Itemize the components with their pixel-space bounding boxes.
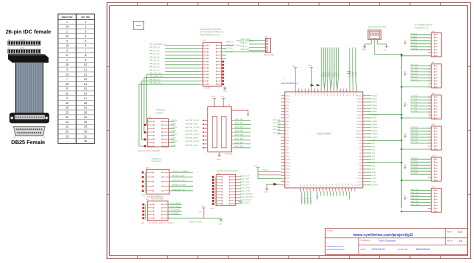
resistor R1: [203, 208, 205, 218]
connector JP11 body: [428, 188, 441, 212]
connector JP7 body: [428, 64, 441, 88]
svg-text:PA20: PA20: [286, 161, 290, 164]
svg-text:DAC0: DAC0: [372, 177, 377, 180]
svg-text:13: 13: [84, 77, 88, 81]
svg-text:DB25 PIN: DB25 PIN: [62, 16, 73, 19]
connector JP3 body: [146, 169, 169, 194]
svg-text:PWM9: PWM9: [357, 123, 362, 126]
svg-text:PA15: PA15: [286, 101, 290, 104]
svg-text:JP8: JP8: [432, 92, 435, 95]
svg-text:PWM13: PWM13: [372, 136, 378, 139]
svg-text:11: 11: [66, 115, 69, 119]
svg-text:BUF_IN2: BUF_IN2: [235, 122, 244, 125]
wires DUE top nets: [320, 48, 357, 89]
svg-text:JTAG_TCK: JTAG_TCK: [240, 174, 250, 177]
ground U1: [218, 152, 220, 155]
svg-text:COOLANT_ON: COOLANT_ON: [172, 179, 186, 182]
svg-text:IN_CH5: IN_CH5: [411, 44, 417, 47]
svg-text:EXT_RESET: EXT_RESET: [171, 202, 183, 205]
svg-text:PC7: PC7: [286, 149, 289, 152]
power +3V3 DUE: [310, 68, 312, 89]
svg-text:AUX_CH6: AUX_CH6: [411, 203, 419, 206]
wires JP7 left: [401, 63, 432, 87]
junction squares JP3 left: [142, 171, 145, 192]
svg-text:16: 16: [65, 44, 69, 48]
filter parts JP7: [404, 71, 406, 74]
junction squares JP2 left: [144, 124, 146, 147]
svg-text:17: 17: [65, 53, 69, 57]
pins U1 left: [202, 120, 207, 149]
svg-text:PWM4: PWM4: [357, 107, 362, 110]
svg-text:PWM1: PWM1: [357, 98, 362, 101]
svg-text:DB25 Female: DB25 Female: [11, 140, 45, 146]
svg-text:YDIR: YDIR: [171, 130, 176, 133]
wires JP11 left: [401, 188, 432, 212]
svg-text:AD8: AD8: [372, 165, 376, 168]
svg-text:JTAG_TDI: JTAG_TDI: [240, 183, 249, 186]
svg-text:AUX_CH4: AUX_CH4: [411, 197, 419, 200]
svg-text:BUF_IN1: BUF_IN1: [235, 118, 244, 121]
svg-text:19: 19: [84, 106, 88, 110]
svg-text:LS_CH1: LS_CH1: [411, 95, 418, 98]
wires JP10 left: [401, 157, 432, 181]
svg-text:BUF_IN2: BUF_IN2: [273, 122, 280, 125]
svg-text:PC8: PC8: [286, 152, 289, 155]
svg-text:PC2: PC2: [286, 133, 289, 136]
svg-text:PC9: PC9: [286, 155, 289, 158]
svg-text:14: 14: [43, 136, 45, 139]
svg-text:OF THE DB25 PARALLEL: OF THE DB25 PARALLEL: [200, 31, 224, 34]
svg-text:IDC26: IDC26: [205, 87, 210, 90]
svg-text:SPINDLE &: SPINDLE &: [151, 157, 162, 160]
wires JP9 left: [401, 126, 432, 150]
svg-text:13: 13: [65, 134, 69, 138]
DB25 rear shell: [9, 113, 49, 123]
terminal X1 body: [368, 30, 381, 40]
svg-text:SW_CH2: SW_CH2: [411, 129, 419, 132]
svg-text:ADIR: ADIR: [171, 144, 176, 147]
svg-text:PWM0: PWM0: [372, 94, 377, 97]
svg-text:PD10: PD10: [286, 126, 290, 129]
svg-text:PD1: PD1: [286, 107, 289, 110]
svg-text:HM_CH3: HM_CH3: [411, 69, 418, 72]
svg-text:24: 24: [84, 130, 88, 134]
svg-text:ZSTEP: ZSTEP: [171, 133, 178, 136]
svg-text:AD11: AD11: [372, 174, 376, 177]
svg-text:REV:: REV:: [447, 231, 452, 234]
svg-text:PA7: PA7: [286, 123, 289, 126]
svg-text:-: -: [67, 139, 68, 143]
svg-text:EXT_HOLD: EXT_HOLD: [171, 205, 182, 208]
IDC connector body 3d: [8, 54, 49, 63]
svg-text:JP10: JP10: [432, 154, 436, 157]
svg-text:20: 20: [84, 110, 88, 114]
svg-text:PP_D4_IN: PP_D4_IN: [150, 59, 160, 62]
svg-text:12: 12: [84, 72, 88, 76]
svg-text:21: 21: [65, 91, 69, 95]
filter parts JP6: [404, 40, 406, 43]
svg-text:+3V3: +3V3: [210, 207, 214, 210]
svg-text:PARALLEL: PARALLEL: [156, 109, 167, 112]
svg-text:25: 25: [84, 134, 88, 138]
svg-text:XSTEP: XSTEP: [171, 119, 178, 122]
svg-text:IN_CH1: IN_CH1: [411, 32, 417, 35]
connector JP2 body: [147, 119, 168, 147]
wires JP3 right: [169, 170, 193, 191]
svg-text:AD6: AD6: [359, 158, 362, 161]
svg-text:IN_CH2: IN_CH2: [411, 35, 417, 38]
IDC pin row odd: [8, 49, 41, 53]
svg-text:14: 14: [65, 25, 69, 29]
svg-text:PWM4: PWM4: [372, 107, 377, 110]
svg-text:AUX_CH1: AUX_CH1: [411, 188, 419, 191]
svg-text:Drawn By:: Drawn By:: [398, 248, 408, 251]
capacitor C1: [347, 71, 351, 73]
svg-text:PP_D1_IN: PP_D1_IN: [150, 49, 160, 52]
svg-text:USB_D-: USB_D-: [240, 41, 248, 44]
svg-text:PWM5: PWM5: [372, 110, 377, 113]
svg-text:AX_CH5: AX_CH5: [411, 169, 418, 172]
svg-text:15: 15: [65, 34, 69, 38]
svg-text:JTAG_DBGRQ: JTAG_DBGRQ: [240, 192, 253, 195]
svg-text:PC19: PC19: [286, 165, 290, 168]
svg-text:AD4: AD4: [359, 152, 362, 155]
svg-text:FC_START: FC_START: [171, 209, 181, 212]
svg-text:A MODIFIED VERSION: A MODIFIED VERSION: [200, 28, 222, 31]
svg-text:AX_CH2: AX_CH2: [411, 160, 418, 163]
ic DUE shield body: [285, 92, 363, 188]
svg-text:MOTOR_XSTEP: MOTOR_XSTEP: [185, 119, 200, 122]
svg-text:MOTOR_YSTEP: MOTOR_YSTEP: [185, 126, 200, 129]
svg-text:17: 17: [84, 96, 88, 100]
svg-text:PC18: PC18: [286, 168, 290, 171]
svg-text:25: 25: [65, 130, 69, 134]
svg-text:DAC1: DAC1: [372, 180, 377, 183]
svg-text:AD1: AD1: [372, 142, 376, 145]
svg-text:20: 20: [65, 82, 69, 86]
svg-text:COOLANT: COOLANT: [151, 160, 161, 163]
svg-text:BUF_IN8: BUF_IN8: [235, 145, 244, 148]
svg-text:SW_CH6: SW_CH6: [411, 141, 419, 144]
svg-text:PWM13: PWM13: [356, 136, 362, 139]
svg-text:24: 24: [65, 120, 69, 124]
svg-text:1: 1: [45, 125, 46, 128]
svg-text:SW_CH4: SW_CH4: [411, 135, 419, 138]
wires DUE left nets: [254, 164, 281, 179]
svg-text:IN_CH4: IN_CH4: [411, 41, 417, 44]
svg-text:DUE Shield: DUE Shield: [317, 133, 331, 136]
svg-text:AX_CH3: AX_CH3: [411, 163, 418, 166]
svg-text:SWD: SWD: [238, 201, 243, 204]
svg-text:PWM12: PWM12: [372, 133, 378, 136]
svg-text:23: 23: [84, 125, 88, 129]
svg-text:Input Power (5-12V): Input Power (5-12V): [368, 25, 386, 28]
svg-text:BUF_IN3: BUF_IN3: [235, 126, 244, 129]
ground JP1: [224, 86, 226, 87]
svg-text:10: 10: [65, 106, 69, 110]
svg-text:PWM11: PWM11: [372, 129, 378, 132]
svg-text:JP3: JP3: [145, 167, 148, 170]
svg-text:18: 18: [84, 101, 88, 105]
svg-text:HM_CH1: HM_CH1: [411, 63, 418, 66]
svg-text:TITLE:: TITLE:: [327, 230, 334, 233]
svg-text:RESET_SAFE: RESET_SAFE: [189, 221, 202, 224]
ic U1 body: [208, 107, 232, 152]
filter parts JP9: [404, 133, 406, 136]
svg-text:IDC PIN: IDC PIN: [81, 16, 90, 19]
svg-text:PP_D3_IN: PP_D3_IN: [150, 56, 160, 59]
wire power bus vertical: [401, 55, 403, 209]
connector JP10 body: [428, 157, 441, 181]
svg-text:PWM2: PWM2: [372, 101, 377, 104]
svg-text:MOTOR_ADIR: MOTOR_ADIR: [185, 144, 198, 147]
svg-text:AUX_CH5: AUX_CH5: [411, 200, 419, 203]
svg-text:PWM12: PWM12: [356, 133, 362, 136]
svg-text:14: 14: [84, 82, 88, 86]
svg-text:X2: X2: [265, 35, 267, 38]
svg-text:PD6: PD6: [286, 117, 289, 120]
svg-text:16: 16: [84, 91, 88, 95]
svg-text:USB_GND: USB_GND: [240, 48, 250, 51]
svg-text:PWM7: PWM7: [357, 117, 362, 120]
svg-text:RESET/PWR: RESET/PWR: [151, 198, 163, 201]
power +3V3 U1: [213, 99, 215, 107]
svg-text:HEADERS 1-6: HEADERS 1-6: [415, 26, 429, 29]
svg-text:www.synthetos.com/project/g2/: www.synthetos.com/project/g2/: [352, 232, 414, 237]
svg-text:22: 22: [65, 101, 69, 105]
svg-text:AD3: AD3: [372, 149, 376, 152]
svg-text:26-pin IDC female: 26-pin IDC female: [6, 30, 51, 36]
svg-text:PA24: PA24: [286, 174, 290, 177]
svg-text:PP_STROBE_IN: PP_STROBE_IN: [150, 43, 166, 46]
svg-text:PA14: PA14: [286, 98, 290, 101]
svg-text:R1: R1: [199, 210, 201, 213]
svg-text:22: 22: [84, 120, 88, 124]
svg-text:Date:: Date:: [360, 248, 366, 251]
svg-text:JP11: JP11: [432, 185, 436, 188]
svg-text:TXD3_Q: TXD3_Q: [301, 197, 304, 205]
svg-text:PWM3: PWM3: [357, 104, 362, 107]
svg-text:AD3: AD3: [359, 149, 362, 152]
connector JP4 body: [147, 201, 168, 221]
svg-text:PS_ON: PS_ON: [226, 47, 233, 50]
svg-text:USB_D+: USB_D+: [240, 45, 249, 48]
svg-text:JP1: JP1: [203, 39, 206, 42]
svg-text:CANRX: CANRX: [356, 184, 363, 187]
svg-text:SPINDLE_ENABLE: SPINDLE_ENABLE: [172, 170, 189, 173]
svg-text:PC4: PC4: [286, 139, 289, 142]
supply X1 right: [385, 45, 388, 47]
wires JP1 left rows10-13 to JP2: [139, 72, 200, 146]
svg-text:12: 12: [65, 125, 69, 129]
svg-text:EXT CTRL: EXT CTRL: [151, 195, 162, 198]
svg-text:XDIR: XDIR: [171, 123, 176, 126]
svg-text:COOLANT_ON: COOLANT_ON: [226, 44, 240, 47]
svg-text:RXD3_Q: RXD3_Q: [304, 197, 307, 205]
svg-text:IN_CH6: IN_CH6: [411, 47, 417, 50]
junction arrows DUE top: [311, 84, 315, 86]
ribbon cable: [16, 63, 44, 114]
svg-text:Micro USB: Micro USB: [264, 53, 275, 56]
connector JP6 body: [428, 33, 441, 57]
svg-text:JP9: JP9: [432, 123, 435, 126]
svg-text:DUE:NORMAL_A: DUE:NORMAL_A: [281, 82, 299, 85]
svg-text:PP_ACK_IN: PP_ACK_IN: [150, 72, 162, 75]
svg-text:SW_CH3: SW_CH3: [411, 132, 419, 135]
svg-text:AD9: AD9: [372, 168, 376, 171]
svg-text:PA19: PA19: [286, 158, 290, 161]
svg-text:MOTOR_ZSTEP: MOTOR_ZSTEP: [185, 133, 200, 136]
svg-text:RXD0: RXD0: [355, 72, 358, 77]
svg-text:AD11: AD11: [358, 174, 362, 177]
wires U1 right: [232, 118, 251, 148]
svg-text:SS0: SS0: [337, 73, 340, 77]
svg-text:PP_D5_IN: PP_D5_IN: [150, 62, 160, 65]
svg-text:PWM1: PWM1: [372, 98, 377, 101]
svg-text:PD9: PD9: [286, 120, 289, 123]
svg-text:AD2: AD2: [372, 145, 376, 148]
svg-text:BUF_IN1: BUF_IN1: [273, 119, 280, 122]
svg-text:PWM7: PWM7: [372, 117, 377, 120]
svg-text:JP4: JP4: [145, 198, 148, 201]
svg-text:USB_VBUS: USB_VBUS: [240, 38, 251, 41]
svg-text:JTAG_TMS: JTAG_TMS: [240, 177, 250, 180]
svg-text:HM_CH4: HM_CH4: [411, 72, 418, 75]
svg-text:JTAG_TRST: JTAG_TRST: [240, 189, 252, 192]
svg-text:JTAG_DBGACK: JTAG_DBGACK: [240, 195, 254, 198]
svg-text:PWM10: PWM10: [356, 126, 362, 129]
pins DUE top: [294, 89, 358, 96]
svg-text:BUF_IN3: BUF_IN3: [273, 125, 280, 128]
svg-text:PP_D0_IN: PP_D0_IN: [150, 46, 160, 49]
svg-text:15: 15: [84, 87, 88, 91]
logo box: [133, 21, 143, 29]
svg-text:PD3: PD3: [286, 113, 289, 116]
svg-text:DAC1: DAC1: [357, 180, 362, 183]
svg-text:MOTOR_YDIR: MOTOR_YDIR: [185, 130, 198, 133]
svg-text:+3V3: +3V3: [308, 64, 312, 67]
svg-text:CANRX: CANRX: [372, 184, 379, 187]
svg-text:BUF_IN4: BUF_IN4: [273, 128, 280, 131]
svg-text:YSTEP: YSTEP: [171, 126, 178, 129]
svg-text:PA22: PA22: [286, 180, 290, 183]
svg-text:grblShield by Synthetos: grblShield by Synthetos: [327, 248, 345, 251]
svg-text:ZDIR: ZDIR: [171, 137, 176, 140]
svg-text:26: 26: [84, 139, 88, 143]
svg-text:HM_CH6: HM_CH6: [411, 78, 418, 81]
svg-text:18: 18: [65, 63, 69, 67]
svg-text:11: 11: [84, 68, 87, 72]
svg-text:MOTOR_XDIR: MOTOR_XDIR: [185, 123, 198, 126]
svg-text:AD1: AD1: [359, 142, 362, 145]
svg-text:AD8: AD8: [359, 165, 362, 168]
svg-text:Company:: Company:: [360, 239, 370, 242]
svg-text:8 CHANNEL INPUT: 8 CHANNEL INPUT: [415, 24, 433, 27]
wire RESET_SAFE: [168, 217, 221, 219]
svg-text:AX_CH1: AX_CH1: [411, 157, 418, 160]
svg-text:PWM10: PWM10: [372, 126, 378, 129]
svg-text:PWM_A: PWM_A: [226, 40, 234, 43]
svg-text:SW_CH5: SW_CH5: [411, 138, 419, 141]
svg-text:with inspiration from the: with inspiration from the: [327, 245, 345, 248]
svg-text:PWM2: PWM2: [357, 101, 362, 104]
svg-text:BUF_IN5: BUF_IN5: [273, 131, 280, 134]
svg-text:AD4: AD4: [372, 152, 376, 155]
connector JP5 body: [216, 174, 235, 205]
svg-text:DAC0: DAC0: [357, 177, 362, 180]
svg-text:MOTOR_ZDIR: MOTOR_ZDIR: [185, 137, 198, 140]
svg-text:LS_CH4: LS_CH4: [411, 104, 418, 107]
svg-text:LS_CH2: LS_CH2: [411, 98, 418, 101]
ground X1 left: [363, 45, 366, 47]
svg-text:JP6: JP6: [432, 30, 435, 33]
svg-text:AUX_CH3: AUX_CH3: [411, 194, 419, 197]
svg-text:23: 23: [65, 110, 69, 114]
svg-text:PC1: PC1: [286, 129, 289, 132]
svg-text:PWM9: PWM9: [372, 123, 377, 126]
svg-text:EXTERNAL SWITCH INPUTS: EXTERNAL SWITCH INPUTS: [148, 222, 174, 225]
svg-text:IN_CH3: IN_CH3: [411, 38, 417, 41]
svg-text:Your Company: Your Company: [379, 240, 397, 243]
svg-text:JTAG_RTCK: JTAG_RTCK: [240, 186, 252, 189]
svg-text:PS_OK: PS_OK: [226, 51, 233, 54]
power +5V DUE: [295, 68, 297, 89]
svg-text:ERASE: ERASE: [262, 169, 269, 172]
svg-text:PA23: PA23: [286, 177, 290, 180]
wires JP4 right: [168, 202, 182, 215]
svg-text:PWM11: PWM11: [356, 129, 362, 132]
svg-text:AD5: AD5: [359, 155, 362, 158]
wires JP1 left rows1-9: [150, 43, 201, 72]
wire DUE reset with arrow: [267, 183, 281, 185]
svg-text:74HC245: 74HC245: [225, 153, 233, 156]
wires JP5 right: [235, 174, 254, 204]
svg-text:1.0: 1.0: [458, 230, 463, 234]
svg-text:SWITCH INPUT HEADER: SWITCH INPUT HEADER: [138, 149, 161, 152]
filter parts JP10: [404, 164, 406, 167]
svg-text:PD2: PD2: [286, 110, 289, 113]
svg-text:BUF_IN4: BUF_IN4: [235, 130, 244, 133]
svg-text:AD0: AD0: [359, 139, 362, 142]
pins DUE left: [273, 94, 290, 186]
svg-text:PD0: PD0: [286, 104, 289, 107]
svg-text:20-PIN JTAG HEADER: 20-PIN JTAG HEADER: [217, 169, 238, 172]
connector JP1 body: [200, 42, 221, 86]
svg-text:AD10: AD10: [358, 171, 362, 174]
svg-text:Sheet:: Sheet:: [447, 239, 454, 242]
svg-text:PP_PE_IN: PP_PE_IN: [150, 79, 160, 82]
svg-text:1/1: 1/1: [459, 239, 463, 243]
IDC pin row even: [8, 41, 41, 45]
svg-text:PWM6: PWM6: [357, 113, 362, 116]
svg-text:LS_CH6: LS_CH6: [411, 110, 418, 113]
svg-text:AX_CH4: AX_CH4: [411, 166, 418, 169]
svg-text:PWM8: PWM8: [372, 120, 377, 123]
svg-text:+3V3: +3V3: [211, 95, 215, 98]
svg-text:ASTEP: ASTEP: [171, 140, 178, 143]
svg-text:PP_D7_IN: PP_D7_IN: [150, 69, 160, 72]
DB25 face view: [14, 126, 45, 135]
svg-text:19: 19: [65, 72, 69, 76]
svg-text:LS_CH3: LS_CH3: [411, 101, 418, 104]
connector JP9 body: [428, 126, 441, 150]
wires micro USB: [240, 38, 264, 51]
svg-text:BUF_IN7: BUF_IN7: [235, 141, 244, 144]
svg-text:HM_CH5: HM_CH5: [411, 75, 418, 78]
svg-text:STATUS: STATUS: [156, 111, 164, 114]
svg-text:SPINDLE_PWM: SPINDLE_PWM: [172, 184, 186, 187]
svg-text:AUX_CH2: AUX_CH2: [411, 191, 419, 194]
